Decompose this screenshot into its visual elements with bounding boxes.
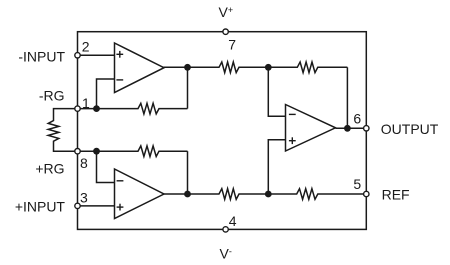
svg-text:6: 6 (353, 110, 361, 126)
op-amp A3 (286, 105, 336, 152)
junction pin8 node (93, 148, 100, 155)
wire A3 out to pin6 (336, 127, 367, 129)
wire pin8 node to A2 -in (97, 151, 115, 182)
junction output node (344, 125, 351, 132)
pin 7 terminal (223, 29, 228, 34)
A2 minus sign (117, 180, 124, 182)
svg-text:2: 2 (82, 39, 90, 55)
resistor A1 feedback (78, 103, 188, 114)
pin 2 terminal (75, 53, 80, 58)
svg-text:+RG: +RG (35, 161, 64, 177)
pin 1 terminal (75, 106, 80, 111)
junction A1 output (184, 64, 191, 71)
resistor A2 feedback (78, 146, 188, 157)
pin 8 terminal (75, 149, 80, 154)
wire pin3 to A2 +in (78, 205, 115, 207)
wire A3 feedback vertical (346, 67, 348, 128)
svg-text:OUTPUT: OUTPUT (381, 121, 439, 137)
svg-text:+INPUT: +INPUT (15, 198, 66, 214)
svg-text:V+: V+ (219, 4, 234, 20)
svg-text:1: 1 (82, 95, 90, 111)
junction A3 -in node (265, 64, 272, 71)
resistor R 25k bottom (A2 out to A3 +in node) (164, 189, 269, 200)
op-amp A1 (115, 43, 165, 93)
A3 minus sign (289, 113, 296, 115)
junction A2 output (184, 191, 191, 198)
wire node to A3 +in (268, 140, 285, 194)
resistor A3 feedback top (268, 62, 347, 73)
svg-text:V-: V- (220, 246, 232, 262)
wire pin1 node to A1 -in (97, 79, 115, 109)
A1 plus sign (116, 53, 123, 55)
A3 plus sign (289, 140, 296, 142)
pin 4 terminal (223, 227, 228, 232)
junction A3 +in node (265, 191, 272, 198)
resistor RG external (48, 109, 75, 152)
A2 plus sign (117, 206, 124, 208)
svg-text:8: 8 (80, 155, 88, 171)
junction pin1 node (93, 105, 100, 112)
svg-text:-RG: -RG (39, 88, 65, 104)
op-amp A2 (115, 169, 165, 219)
pin 3 terminal (75, 203, 80, 208)
svg-text:-INPUT: -INPUT (18, 48, 65, 64)
A1 minus sign (116, 79, 123, 81)
svg-text:REF: REF (382, 186, 410, 202)
wire A1 feedback vertical (187, 67, 189, 109)
svg-text:3: 3 (80, 190, 88, 206)
wire pin2 to A1 +in (78, 54, 115, 56)
svg-text:4: 4 (229, 213, 237, 229)
svg-text:7: 7 (228, 37, 236, 53)
resistor REF (node to pin5) (268, 189, 363, 200)
wire node to A3 -in (268, 67, 285, 116)
wire A2 feedback vertical (187, 151, 189, 194)
svg-text:5: 5 (353, 176, 361, 192)
pin 5 terminal (364, 191, 369, 196)
IC boundary rectangle (78, 32, 367, 230)
resistor R 25k top (A1 out to A3 -in node) (164, 62, 269, 73)
pin 6 terminal (364, 126, 369, 131)
